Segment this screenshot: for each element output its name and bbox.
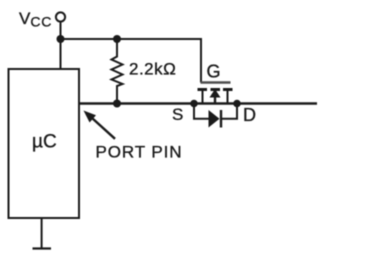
svg-text:VCC: VCC: [19, 9, 52, 29]
terminal VCC open circle: [56, 12, 65, 21]
mosfet Q1 source/drain verticals: [202, 90, 204, 104]
diode D1 triangle: [209, 110, 220, 128]
svg-text:2.2kΩ: 2.2kΩ: [129, 59, 176, 78]
svg-text:G: G: [207, 62, 221, 82]
annotation arrow to port pin wire: [84, 111, 97, 123]
wire body-diode loop: [194, 104, 209, 119]
wire top rail VCC to gate corner: [61, 39, 202, 83]
ground wire stem: [41, 218, 43, 249]
wire S to D under mosfet: [194, 102, 237, 104]
svg-text:PORT PIN: PORT PIN: [96, 143, 183, 162]
wire D to right: [237, 102, 317, 104]
junction dot resistor top: [113, 35, 121, 43]
junction dot VCC rail: [57, 35, 65, 43]
svg-text:S: S: [172, 105, 183, 124]
microcontroller U1 box: [9, 69, 80, 218]
junction dot resistor bottom: [113, 100, 121, 108]
ground symbol bar: [33, 247, 52, 249]
resistor R 2.2k zigzag: [112, 39, 123, 104]
mosfet Q1 gate bar: [201, 81, 231, 83]
mosfet Q1 channel dashes: [198, 88, 233, 91]
junction dot S: [190, 100, 198, 108]
svg-text:D: D: [243, 105, 256, 125]
mosfet Q1 body arrow: [210, 89, 221, 98]
svg-text:µC: µC: [32, 132, 57, 153]
junction dot D: [233, 100, 241, 108]
diode D1 cathode bar: [220, 110, 222, 128]
wire port pin line (box to S): [79, 102, 194, 104]
wire VCC circle down to uC box top: [60, 22, 62, 69]
